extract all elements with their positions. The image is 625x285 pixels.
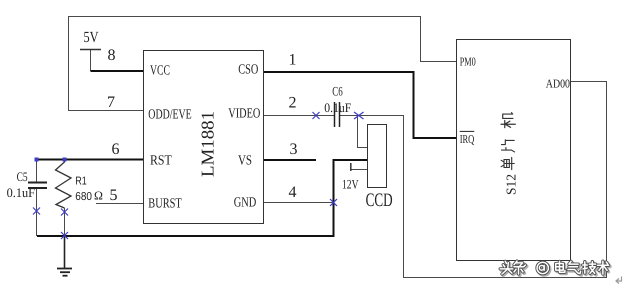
svg-text:VIDEO: VIDEO <box>228 107 260 122</box>
svg-text:0.1uF: 0.1uF <box>324 100 351 115</box>
svg-text:PM0: PM0 <box>460 55 476 69</box>
svg-text:AD00: AD00 <box>546 76 570 90</box>
svg-text:6: 6 <box>112 141 120 158</box>
svg-text:IRQ: IRQ <box>460 132 475 146</box>
svg-text:2: 2 <box>289 95 297 112</box>
svg-text:S12: S12 <box>504 174 519 195</box>
svg-text:4: 4 <box>289 184 297 201</box>
svg-text:5V: 5V <box>84 29 100 46</box>
svg-text:8: 8 <box>108 47 116 64</box>
svg-text:BURST: BURST <box>148 197 182 212</box>
svg-text:5: 5 <box>110 187 118 204</box>
svg-text:12V: 12V <box>342 177 359 192</box>
svg-text:VS: VS <box>238 154 252 169</box>
svg-text:RST: RST <box>150 154 172 169</box>
svg-text:Ω: Ω <box>94 189 103 203</box>
svg-text:VCC: VCC <box>150 64 170 79</box>
svg-text:C5: C5 <box>17 169 28 184</box>
svg-text:0.1uF: 0.1uF <box>7 185 35 200</box>
svg-text:C6: C6 <box>332 84 343 99</box>
svg-text:680: 680 <box>75 191 92 203</box>
svg-text:GND: GND <box>234 196 257 211</box>
svg-text:CCD: CCD <box>366 190 393 211</box>
svg-text:R1: R1 <box>75 176 87 188</box>
svg-text:ODD/EVE: ODD/EVE <box>148 108 191 123</box>
svg-text:CSO: CSO <box>238 63 258 78</box>
svg-text:7: 7 <box>107 94 115 111</box>
svg-text:1: 1 <box>289 52 297 69</box>
svg-text:LM1881: LM1881 <box>198 111 218 177</box>
svg-text:3: 3 <box>290 141 298 158</box>
